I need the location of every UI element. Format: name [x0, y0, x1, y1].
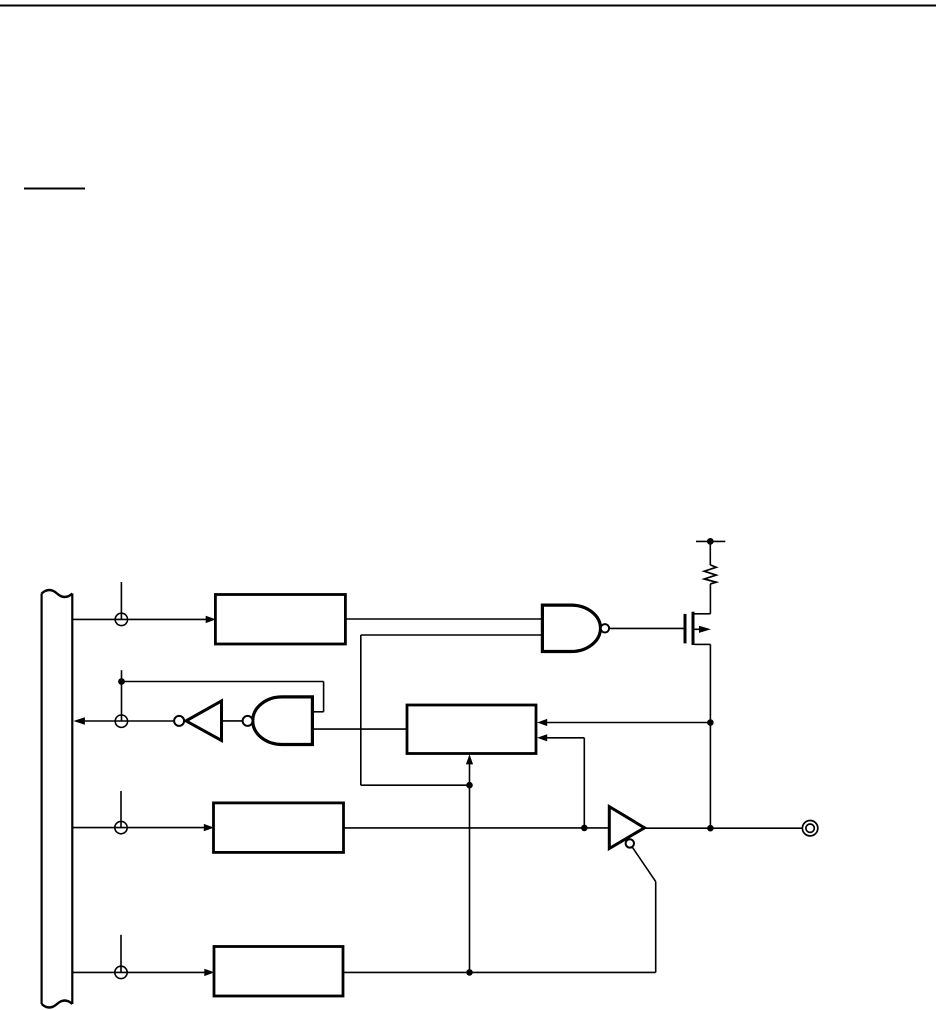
junction dot node C	[118, 678, 125, 685]
wire block4 output	[343, 971, 656, 973]
pin stub row2	[121, 670, 123, 721]
block 2	[407, 705, 536, 754]
junction dot node D	[581, 825, 588, 832]
vdd supply bar	[696, 538, 725, 545]
arrowhead block2 bottom	[466, 754, 473, 764]
arrowhead block2 input2	[537, 734, 547, 741]
wire row3 bus to block3	[73, 827, 205, 829]
junction dot node A	[707, 719, 714, 726]
junction dot node B	[466, 782, 473, 789]
block 3	[214, 803, 344, 853]
junction dot node E	[707, 825, 714, 832]
pin stub row4	[120, 935, 122, 973]
arrowhead into block4	[204, 969, 214, 976]
pin stub row1	[120, 582, 122, 619]
transistor Q1	[685, 612, 711, 645]
wire U1 lower input	[361, 635, 543, 785]
resistor R1	[704, 565, 716, 584]
wire block3 to buffer U4	[344, 827, 610, 829]
wire U3 to bus	[85, 720, 174, 722]
tap circle row3	[115, 821, 127, 833]
arrowhead block2 input1	[537, 719, 547, 726]
page top rule	[0, 5, 936, 7]
wire U4 enable	[632, 847, 656, 973]
nand U1	[542, 605, 609, 651]
tap circle row2	[115, 715, 127, 727]
wire row4 bus to block4	[73, 971, 205, 973]
arrowhead into block1	[206, 616, 216, 623]
wire Q1 source down	[709, 644, 711, 828]
wire U1 output to Q1 gate	[609, 627, 683, 629]
internal bus bar	[42, 590, 73, 1008]
wire resistor to Q1 drain	[709, 584, 711, 614]
arrowhead into bus	[73, 717, 85, 725]
tap circle row4	[115, 966, 127, 978]
block 4	[214, 947, 343, 997]
wire U2 upper input feedback	[122, 682, 324, 712]
wire block2 input2	[547, 738, 585, 828]
block 1	[215, 595, 345, 645]
inverter U3	[174, 701, 221, 741]
wire vdd to resistor	[709, 541, 711, 565]
wire row1 bus to block1	[73, 618, 207, 620]
nand U2	[243, 697, 313, 745]
wire block1 to nand U1	[345, 618, 542, 620]
arrowhead into block3	[204, 824, 214, 831]
output pad terminal	[802, 821, 817, 836]
wire U2 to inverter U3	[222, 720, 243, 722]
pin stub row3	[120, 791, 122, 828]
wire block2 bottom input	[469, 764, 471, 972]
buffer U4	[609, 807, 644, 849]
tap circle row1	[115, 613, 127, 625]
heading underline rule	[24, 188, 85, 190]
wire node A to block2 input1	[547, 722, 711, 724]
junction dot node F	[466, 969, 473, 976]
wire block2 to nand U2	[312, 728, 407, 730]
wire U4 output	[645, 827, 803, 829]
